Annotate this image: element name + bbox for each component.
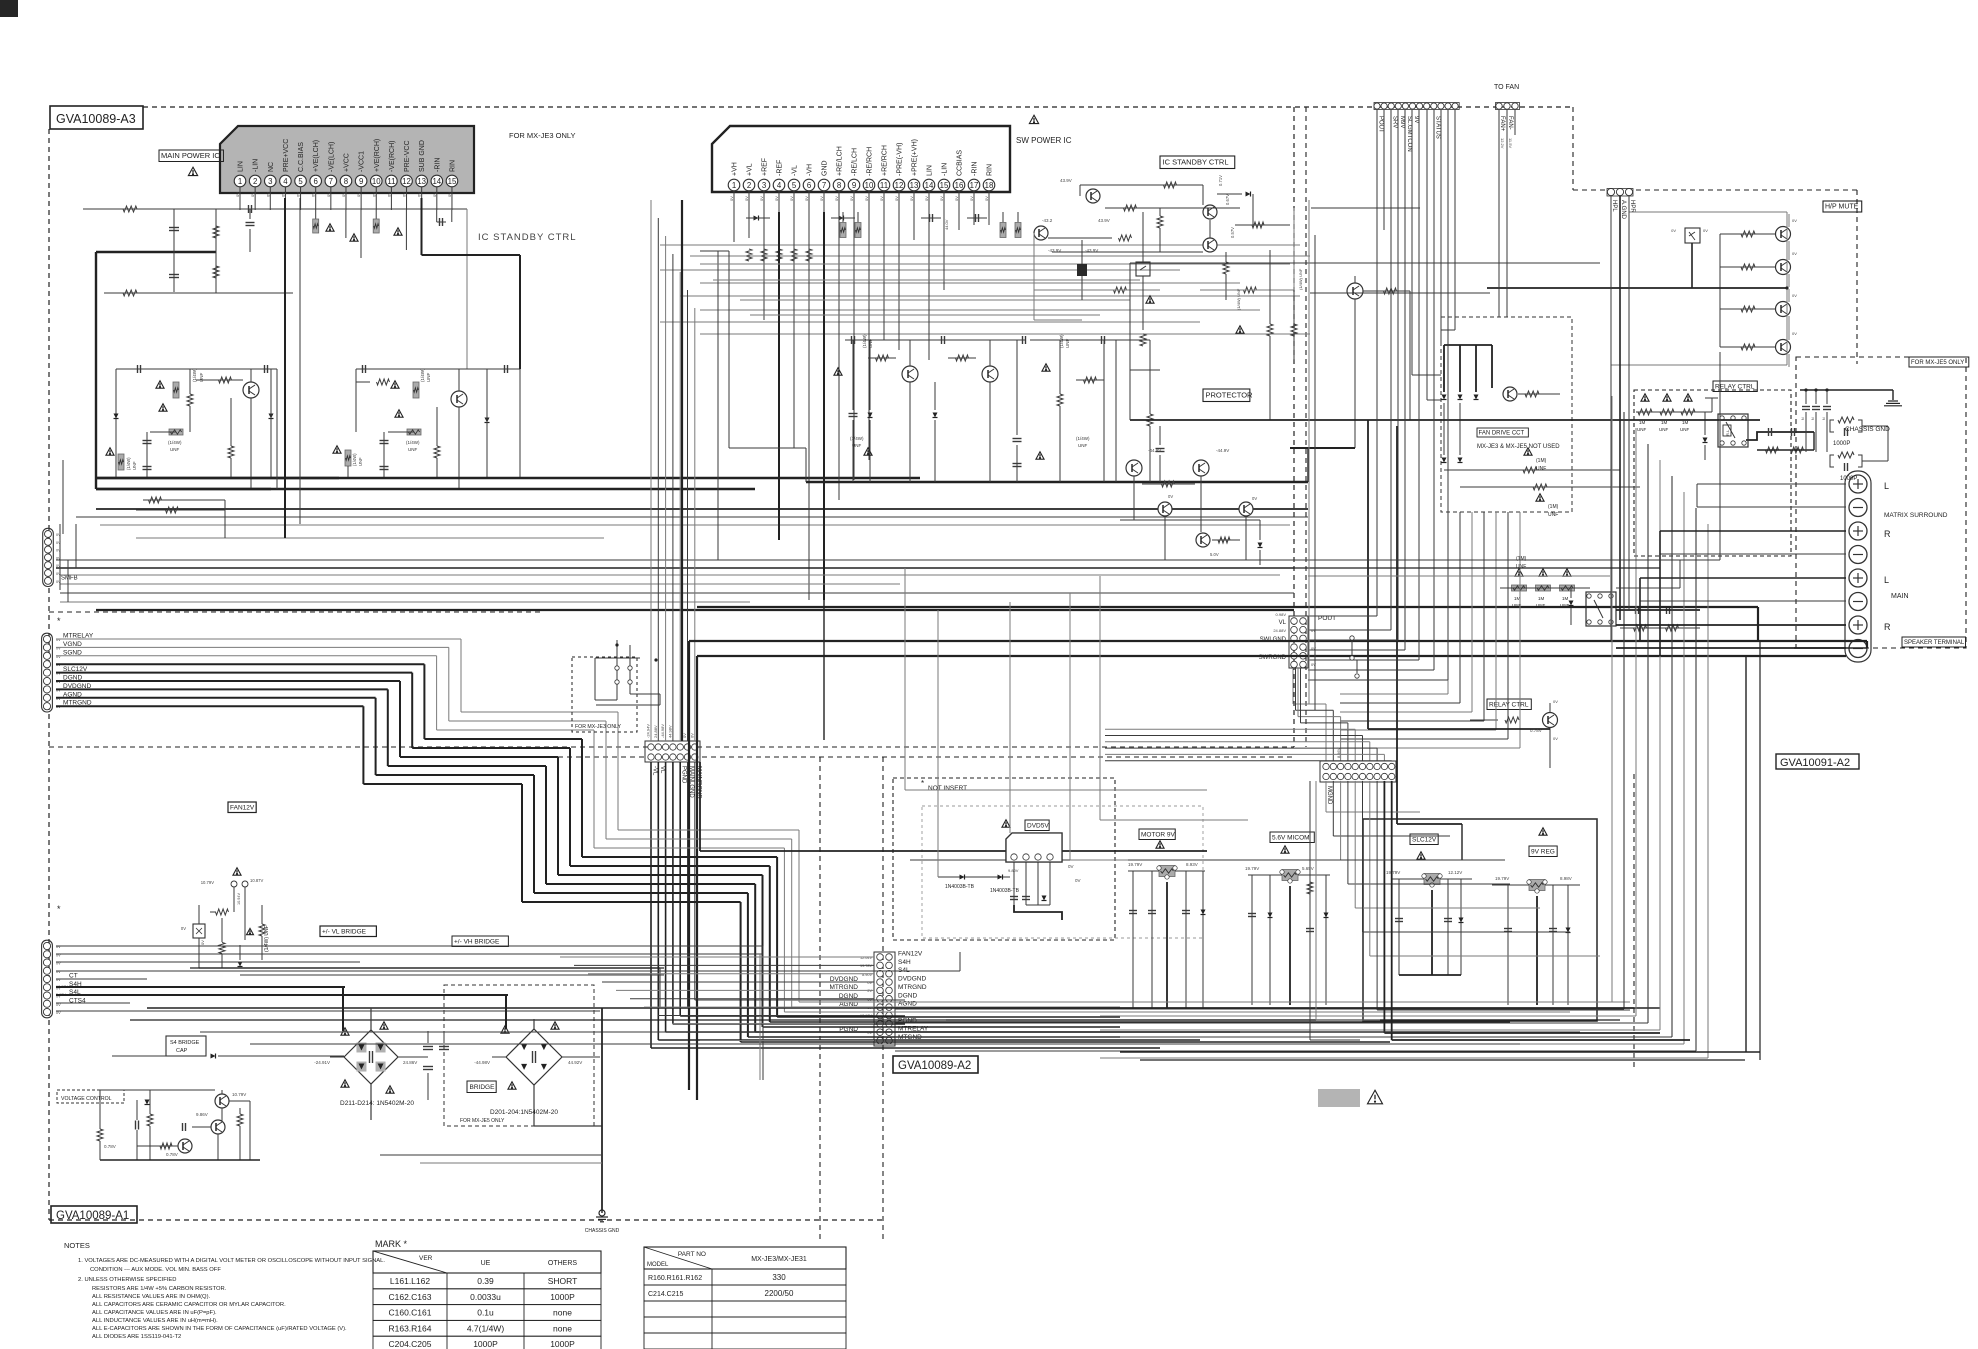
svg-text:ALL INDUCTANCE VALUES ARE IN u: ALL INDUCTANCE VALUES ARE IN uH(m=mH). (92, 1318, 218, 1324)
svg-text:L: L (1884, 575, 1889, 585)
svg-text:0V: 0V (939, 196, 944, 201)
svg-text:NOTES: NOTES (64, 1241, 90, 1250)
svg-text:ALL CAPACITANCE VALUES ARE IN: ALL CAPACITANCE VALUES ARE IN uF(P=pF). (92, 1310, 217, 1316)
svg-text:(1/4W): (1/4W) (862, 334, 867, 348)
svg-text:UNF: UNF (199, 373, 204, 382)
svg-text:0V: 0V (804, 196, 809, 201)
svg-text:-VCC1: -VCC1 (359, 151, 366, 172)
svg-text:IC STANDBY CTRL: IC STANDBY CTRL (478, 232, 577, 243)
svg-text:0V: 0V (341, 192, 346, 197)
svg-text:43.9V: 43.9V (1098, 218, 1110, 223)
svg-text:0.0033u: 0.0033u (470, 1292, 501, 1302)
svg-text:10.94V: 10.94V (237, 892, 241, 905)
svg-text:IC STANDBY CTRL: IC STANDBY CTRL (1163, 158, 1229, 167)
svg-text:(1/4W): (1/4W) (352, 453, 357, 466)
svg-text:FOR MX-JE3 ONLY: FOR MX-JE3 ONLY (509, 131, 576, 140)
svg-text:-PRE(-VH): -PRE(-VH) (897, 143, 904, 176)
svg-text:-VE(LCH): -VE(LCH) (328, 142, 335, 172)
svg-text:0V: 0V (200, 940, 205, 945)
svg-text:MX-JE3/MX-JE31: MX-JE3/MX-JE31 (751, 1256, 807, 1263)
svg-text:ALL DIODES ARE 1SS119-041-T2: ALL DIODES ARE 1SS119-041-T2 (92, 1334, 181, 1340)
svg-text:0V: 0V (789, 196, 794, 201)
svg-text:C160.C161: C160.C161 (388, 1308, 431, 1318)
svg-text:PGND: PGND (681, 766, 687, 784)
svg-text:17: 17 (970, 181, 979, 190)
svg-text:GVA10091-A2: GVA10091-A2 (1780, 757, 1850, 769)
svg-text:UNF: UNF (408, 447, 417, 452)
svg-text:5: 5 (298, 177, 303, 186)
svg-text:(1/4W) UNF: (1/4W) UNF (1298, 268, 1303, 290)
svg-text:+VH: +VH (732, 162, 739, 176)
svg-text:0V: 0V (250, 192, 255, 197)
svg-text:R.L: R.L (1725, 429, 1730, 436)
svg-text:0V: 0V (265, 192, 270, 197)
svg-text:SL.GMTCON: SL.GMTCON (1406, 116, 1412, 152)
svg-text:11: 11 (880, 181, 888, 190)
svg-text:-REF: -REF (777, 160, 784, 176)
svg-text:19.78V: 19.78V (860, 964, 873, 968)
svg-text:+RE/RCH: +RE/RCH (882, 145, 889, 176)
svg-text:10.87V: 10.87V (250, 878, 263, 883)
svg-text:S4 BRIDGE: S4 BRIDGE (170, 1040, 200, 1046)
svg-text:-RE/RCH: -RE/RCH (867, 147, 874, 176)
svg-text:1000P: 1000P (1840, 476, 1857, 482)
svg-text:2: 2 (253, 177, 257, 186)
svg-text:MX-JE3 & MX-JE5 NOT USED: MX-JE3 & MX-JE5 NOT USED (1477, 444, 1560, 450)
svg-text:0V: 0V (759, 196, 764, 201)
svg-text:0V: 0V (1671, 228, 1676, 233)
svg-text:+/- VL BRIDGE: +/- VL BRIDGE (322, 928, 367, 935)
svg-text:DVDGND: DVDGND (898, 976, 926, 983)
svg-text:STATUS: STATUS (1434, 116, 1440, 139)
svg-text:0.1u: 0.1u (477, 1308, 494, 1318)
svg-text:+RE/LCH: +RE/LCH (837, 146, 844, 176)
svg-text:C214.C215: C214.C215 (648, 1291, 684, 1298)
svg-text:13: 13 (910, 181, 919, 190)
svg-text:UNF: UNF (1516, 564, 1526, 570)
svg-text:9.86V: 9.86V (196, 1112, 208, 1117)
svg-text:330: 330 (772, 1273, 786, 1282)
svg-text:19.79V: 19.79V (1128, 862, 1142, 867)
svg-text:*: * (57, 904, 61, 914)
svg-text:L: L (1884, 481, 1889, 491)
svg-text:R160.R161.R162: R160.R161.R162 (648, 1275, 702, 1282)
svg-text:RELAY CTRL: RELAY CTRL (1489, 701, 1529, 708)
svg-text:UNF: UNF (170, 447, 179, 452)
svg-text:SMFB: SMFB (61, 575, 78, 581)
svg-text:*: * (921, 779, 924, 788)
svg-text:SLC12V: SLC12V (1412, 836, 1437, 843)
svg-text:0V: 0V (386, 192, 391, 197)
svg-text:C.C.BIAS: C.C.BIAS (298, 142, 305, 172)
svg-text:DGND: DGND (898, 992, 917, 999)
svg-text:11.5V: 11.5V (1508, 138, 1513, 148)
svg-text:24.88V: 24.88V (1273, 628, 1286, 633)
svg-text:1: 1 (732, 181, 736, 190)
svg-text:VL: VL (659, 766, 665, 774)
svg-text:C204.C205: C204.C205 (388, 1339, 431, 1349)
svg-text:0V: 0V (402, 192, 407, 197)
svg-text:MAIN: MAIN (1891, 593, 1909, 600)
svg-text:0V: 0V (432, 192, 437, 197)
svg-text:12: 12 (895, 181, 904, 190)
svg-text:MOTOR 9V: MOTOR 9V (1141, 831, 1175, 838)
svg-text:0V: 0V (1792, 293, 1797, 298)
svg-text:0V: 0V (1553, 699, 1558, 704)
svg-text:1M: 1M (1538, 596, 1545, 601)
svg-text:0.39: 0.39 (477, 1276, 494, 1286)
svg-text:-VL: -VL (792, 165, 799, 176)
svg-text:(1/4W): (1/4W) (406, 440, 420, 445)
svg-text:LIN: LIN (238, 161, 245, 172)
svg-text:1000P: 1000P (550, 1339, 575, 1349)
svg-text:RIN: RIN (449, 160, 456, 172)
svg-text:SHORT: SHORT (548, 1276, 578, 1286)
svg-text:0.71V: 0.71V (1218, 175, 1223, 186)
svg-text:UNF: UNF (868, 339, 873, 348)
svg-text:12: 12 (402, 177, 411, 186)
svg-text:HPR: HPR (1629, 200, 1635, 213)
svg-text:RIN: RIN (987, 164, 994, 176)
svg-text:A.GND: A.GND (1620, 200, 1626, 220)
svg-text:(1/4W): (1/4W) (168, 440, 182, 445)
svg-text:HPL: HPL (1611, 200, 1617, 212)
svg-text:FOR MX-JE5 ONLY: FOR MX-JE5 ONLY (1911, 360, 1964, 366)
svg-text:0V: 0V (1792, 331, 1797, 336)
svg-text:0V: 0V (447, 192, 452, 197)
svg-text:MODEL: MODEL (647, 1262, 669, 1268)
svg-text:0V: 0V (909, 196, 914, 201)
svg-text:+/- VH BRIDGE: +/- VH BRIDGE (454, 938, 500, 945)
svg-text:-RIN: -RIN (972, 162, 979, 176)
svg-text:2200/50: 2200/50 (765, 1289, 794, 1298)
svg-text:1. VOLTAGES ARE DC-MEASURED WI: 1. VOLTAGES ARE DC-MEASURED WITH A DIGIT… (78, 1258, 385, 1264)
svg-text:L161.L162: L161.L162 (390, 1276, 430, 1286)
svg-text:0V: 0V (1792, 218, 1797, 223)
svg-text:CAP: CAP (176, 1048, 188, 1054)
svg-text:SW POWER IC: SW POWER IC (1016, 136, 1072, 145)
svg-text:6: 6 (314, 177, 319, 186)
svg-text:UNF: UNF (1065, 339, 1070, 348)
svg-text:(1M): (1M) (1516, 556, 1527, 562)
svg-text:8: 8 (837, 181, 842, 190)
svg-text:LIN: LIN (927, 165, 934, 176)
svg-text:0.67V: 0.67V (1225, 194, 1230, 205)
svg-text:0V: 0V (235, 192, 240, 197)
svg-text:BRIDGE: BRIDGE (470, 1084, 496, 1091)
svg-text:PART NO: PART NO (678, 1251, 706, 1258)
svg-text:MTRGND: MTRGND (898, 984, 927, 991)
svg-text:9V REG: 9V REG (1531, 848, 1555, 855)
svg-text:(1/4W) UNF: (1/4W) UNF (264, 925, 270, 952)
svg-text:14: 14 (925, 181, 934, 190)
svg-text:18: 18 (985, 181, 994, 190)
svg-text:(1/4W): (1/4W) (850, 436, 864, 441)
svg-text:6: 6 (807, 181, 812, 190)
svg-text:0V: 0V (1792, 251, 1797, 256)
svg-text:0V: 0V (1068, 864, 1074, 869)
svg-text:UNF: UNF (1078, 443, 1087, 448)
svg-text:0V: 0V (834, 196, 839, 201)
svg-text:-24.94V: -24.94V (646, 724, 651, 738)
svg-text:0.78V: 0.78V (166, 1152, 178, 1157)
svg-text:4: 4 (283, 177, 288, 186)
svg-text:0V: 0V (1075, 878, 1081, 883)
svg-text:PRE-VCC: PRE-VCC (404, 140, 411, 172)
svg-text:1000P: 1000P (473, 1339, 498, 1349)
svg-text:UE: UE (481, 1260, 491, 1267)
svg-text:R163.R164: R163.R164 (388, 1323, 431, 1333)
svg-text:10: 10 (372, 177, 381, 186)
svg-text:-24.91V: -24.91V (314, 1060, 330, 1065)
svg-text:7: 7 (329, 177, 333, 186)
svg-text:0V: 0V (1168, 494, 1173, 499)
svg-text:9.80V: 9.80V (1008, 868, 1019, 873)
svg-text:0V: 0V (894, 196, 899, 201)
svg-text:FOR MX-JE5 ONLY: FOR MX-JE5 ONLY (460, 1118, 505, 1124)
svg-text:10.79V: 10.79V (232, 1092, 246, 1097)
svg-text:15: 15 (448, 177, 457, 186)
svg-text:UNF: UNF (132, 461, 137, 470)
svg-text:-LIN: -LIN (253, 159, 260, 172)
svg-text:GVA10089-A2: GVA10089-A2 (898, 1060, 971, 1072)
svg-text:(1/4W): (1/4W) (1076, 436, 1090, 441)
svg-text:-VL: -VL (652, 766, 658, 776)
svg-text:D211-D214: 1N5402M-20: D211-D214: 1N5402M-20 (340, 1100, 414, 1107)
svg-text:MARK *: MARK * (375, 1239, 408, 1249)
svg-text:DVD5V: DVD5V (1027, 822, 1049, 829)
svg-text:NC: NC (268, 162, 275, 172)
svg-text:RESISTORS ARE 1/4W +5% CARBON: RESISTORS ARE 1/4W +5% CARBON RESISTOR. (92, 1286, 227, 1292)
svg-text:1N4003B-TB: 1N4003B-TB (990, 888, 1020, 894)
svg-text:0V: 0V (181, 926, 186, 931)
svg-text:(1/4W): (1/4W) (126, 457, 131, 470)
svg-text:5.0V: 5.0V (1210, 552, 1219, 557)
svg-text:ALL CAPACITORS ARE CERAMIC CAP: ALL CAPACITORS ARE CERAMIC CAPACITOR OR … (92, 1302, 286, 1308)
svg-text:3: 3 (762, 181, 767, 190)
svg-text:+VE(LCH): +VE(LCH) (313, 140, 320, 172)
svg-text:-RE/LCH: -RE/LCH (852, 148, 859, 176)
svg-text:0V: 0V (969, 196, 974, 201)
svg-text:FAN-: FAN- (1507, 116, 1513, 130)
svg-text:FAN+: FAN+ (1499, 116, 1505, 132)
svg-text:UNF: UNF (426, 373, 431, 382)
svg-text:+PRE(+VH): +PRE(+VH) (912, 139, 919, 176)
svg-text:0.98V: 0.98V (1276, 612, 1287, 617)
svg-text:0V: 0V (1553, 736, 1558, 741)
svg-text:10: 10 (865, 181, 874, 190)
svg-text:UNF: UNF (1680, 427, 1689, 432)
svg-text:0V: 0V (864, 196, 869, 201)
svg-text:POUT: POUT (1378, 116, 1384, 133)
svg-text:13: 13 (417, 177, 426, 186)
svg-text:FAN DRIVE CCT: FAN DRIVE CCT (1479, 430, 1525, 436)
svg-text:7: 7 (822, 181, 826, 190)
svg-text:*: * (57, 616, 61, 626)
svg-text:0V: 0V (326, 192, 331, 197)
svg-text:SRV: SRV (1392, 116, 1398, 128)
svg-text:3: 3 (268, 177, 273, 186)
svg-text:UNF: UNF (1659, 427, 1668, 432)
svg-text:VGND: VGND (63, 641, 82, 648)
svg-text:+VCC: +VCC (343, 153, 350, 172)
svg-text:FAN12V: FAN12V (230, 804, 255, 811)
svg-text:-RIN: -RIN (434, 158, 441, 172)
svg-text:0V: 0V (774, 196, 779, 201)
svg-text:0V: 0V (849, 196, 854, 201)
svg-text:0V: 0V (819, 196, 824, 201)
svg-text:CT: CT (69, 973, 78, 980)
svg-text:19.79V: 19.79V (1386, 870, 1400, 875)
svg-text:VER: VER (419, 1255, 433, 1262)
svg-text:44.92V: 44.92V (568, 1060, 582, 1065)
svg-text:(1/4W): (1/4W) (420, 368, 425, 382)
svg-text:0V: 0V (984, 196, 989, 201)
svg-text:0V: 0V (954, 196, 959, 201)
svg-text:0V: 0V (56, 1011, 61, 1015)
svg-text:+VL: +VL (747, 163, 754, 176)
svg-text:TO FAN: TO FAN (1494, 84, 1519, 91)
svg-text:0V: 0V (56, 970, 61, 974)
svg-text:0V: 0V (311, 192, 316, 197)
svg-text:4: 4 (777, 181, 782, 190)
svg-text:0V: 0V (1252, 496, 1257, 501)
svg-text:0.78V: 0.78V (104, 1144, 116, 1149)
svg-text:24.88V: 24.88V (653, 725, 658, 738)
svg-text:0V: 0V (417, 192, 422, 197)
svg-text:OTHERS: OTHERS (548, 1260, 578, 1267)
svg-text:0V: 0V (280, 192, 285, 197)
svg-text:2V: 2V (867, 989, 872, 993)
svg-text:MTRELAY: MTRELAY (63, 633, 94, 640)
svg-text:H/P MUTE: H/P MUTE (1825, 204, 1859, 211)
svg-text:0V: 0V (356, 192, 361, 197)
svg-text:(1M): (1M) (1548, 504, 1559, 510)
svg-text:SGND: SGND (63, 649, 82, 656)
svg-text:10.79V: 10.79V (201, 880, 214, 885)
svg-text:NOT INSERT: NOT INSERT (928, 785, 967, 792)
svg-text:11: 11 (387, 177, 395, 186)
svg-text:0V: 0V (924, 196, 929, 201)
svg-text:8.98V: 8.98V (1560, 876, 1572, 881)
svg-text:+VE(RCH): +VE(RCH) (374, 139, 381, 172)
svg-text:8.93V: 8.93V (1186, 862, 1198, 867)
svg-text:+REF: +REF (762, 158, 769, 176)
svg-text:0V: 0V (371, 192, 376, 197)
svg-text:CONDITION --- AUX MODE. VOL M: CONDITION --- AUX MODE. VOL MIN. BASS OF… (90, 1267, 221, 1273)
svg-text:1N4003B-TB: 1N4003B-TB (945, 884, 975, 890)
svg-text:CCBIAS: CCBIAS (957, 150, 964, 176)
svg-text:CHASSIS GND: CHASSIS GND (585, 1228, 620, 1234)
svg-text:8: 8 (344, 177, 349, 186)
svg-text:CHASSIS GND: CHASSIS GND (1845, 426, 1890, 433)
svg-text:(1/4W) UNF: (1/4W) UNF (1236, 288, 1241, 310)
svg-text:UNF: UNF (1637, 427, 1646, 432)
svg-text:-VE(RCH): -VE(RCH) (389, 141, 396, 173)
svg-text:MGND: MGND (1326, 786, 1332, 805)
svg-text:VL: VL (1279, 620, 1287, 626)
svg-text:0V: 0V (1703, 228, 1708, 233)
svg-text:-LIN: -LIN (942, 163, 949, 176)
svg-text:12.12V: 12.12V (1448, 870, 1462, 875)
svg-text:FAN12V: FAN12V (898, 951, 923, 958)
svg-text:UNF: UNF (1536, 466, 1546, 472)
svg-text:-44.98V: -44.98V (660, 724, 665, 738)
svg-text:43.9V: 43.9V (1060, 178, 1072, 183)
svg-text:24.86V: 24.86V (403, 1060, 417, 1065)
svg-text:1: 1 (238, 177, 242, 186)
svg-text:0V: 0V (296, 192, 301, 197)
svg-text:19.79V: 19.79V (1495, 876, 1509, 881)
svg-text:0V: 0V (729, 196, 734, 201)
svg-text:-VH: -VH (807, 164, 814, 176)
svg-text:2: 2 (747, 181, 751, 190)
svg-text:19.79V: 19.79V (1245, 866, 1259, 871)
svg-text:9: 9 (852, 181, 856, 190)
svg-text:D201-204:1N5402M-20: D201-204:1N5402M-20 (490, 1109, 558, 1116)
svg-text:12.2V: 12.2V (1500, 138, 1505, 149)
svg-text:RELAY CTRL: RELAY CTRL (1715, 383, 1755, 390)
svg-text:16: 16 (955, 181, 964, 190)
svg-text:5.6V MICOM: 5.6V MICOM (1272, 834, 1310, 841)
svg-text:1M: 1M (1562, 596, 1569, 601)
svg-text:none: none (553, 1323, 572, 1333)
svg-text:VOLTAGE CONTROL: VOLTAGE CONTROL (61, 1096, 112, 1102)
svg-text:C162.C163: C162.C163 (388, 1292, 431, 1302)
svg-text:0V: 0V (879, 196, 884, 201)
svg-text:M9V: M9V (1399, 116, 1405, 128)
svg-text:PROTECTOR: PROTECTOR (1206, 391, 1254, 400)
svg-text:none: none (553, 1308, 572, 1318)
svg-text:SPEAKER TERMINAL: SPEAKER TERMINAL (1904, 640, 1965, 646)
svg-text:UNF: UNF (1548, 512, 1558, 518)
svg-text:0V: 0V (744, 196, 749, 201)
svg-text:R: R (1884, 529, 1891, 539)
svg-text:ALL RESISTANCE VALUES ARE IN O: ALL RESISTANCE VALUES ARE IN OHM(Q). (92, 1294, 211, 1300)
svg-text:-44.98V: -44.98V (474, 1060, 490, 1065)
svg-text:-44.9V: -44.9V (1148, 448, 1161, 453)
svg-text:9: 9 (359, 177, 363, 186)
svg-text:FOR MX-JE3 ONLY: FOR MX-JE3 ONLY (575, 724, 622, 730)
svg-text:4.7(1/4W): 4.7(1/4W) (467, 1323, 504, 1333)
svg-text:44.0V: 44.0V (944, 219, 949, 230)
svg-text:0.57V: 0.57V (1230, 227, 1235, 238)
svg-text:UNF: UNF (358, 457, 363, 466)
svg-text:SUB GND: SUB GND (419, 140, 426, 172)
svg-text:-43.2: -43.2 (1042, 218, 1053, 223)
svg-text:15: 15 (940, 181, 949, 190)
svg-text:1000P: 1000P (550, 1292, 575, 1302)
svg-text:5.65V: 5.65V (1302, 866, 1314, 871)
svg-text:R: R (1884, 622, 1891, 632)
svg-text:PRE+VCC: PRE+VCC (283, 139, 290, 172)
svg-text:1000P: 1000P (1833, 441, 1850, 447)
svg-text:5: 5 (792, 181, 797, 190)
svg-text:GVA10089-A3: GVA10089-A3 (56, 112, 136, 126)
svg-text:S4H: S4H (898, 959, 911, 966)
svg-text:14: 14 (432, 177, 441, 186)
svg-text:GND: GND (822, 160, 829, 176)
svg-text:ALL E-CAPACITORS ARE SHOWN IN: ALL E-CAPACITORS ARE SHOWN IN THE FORM O… (92, 1326, 347, 1332)
svg-text:MATRIX SURROUND: MATRIX SURROUND (1884, 512, 1948, 519)
svg-text:MAIN POWER IC: MAIN POWER IC (161, 151, 220, 160)
svg-text:GVA10089-A1: GVA10089-A1 (56, 1210, 129, 1222)
svg-text:2. UNLESS OTHERWISE SPECIFIED: 2. UNLESS OTHERWISE SPECIFIED (78, 1277, 176, 1283)
svg-text:9V: 9V (1413, 116, 1419, 123)
svg-text:(1M): (1M) (1536, 458, 1547, 464)
svg-text:44.98V: 44.98V (667, 725, 672, 738)
svg-text:-44.9V: -44.9V (1216, 448, 1229, 453)
